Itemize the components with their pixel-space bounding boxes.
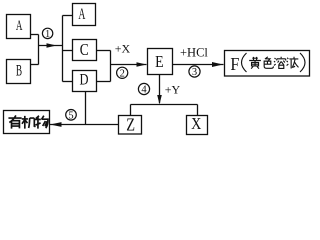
wire arrow5 shaft (Z/D to organic) — [50, 124, 119, 126]
svg-text:2: 2 — [120, 69, 125, 80]
svg-text:F: F — [230, 54, 239, 74]
wire T line above Z and X — [131, 104, 198, 106]
svg-text:3: 3 — [192, 67, 197, 78]
wire merge vertical A+B — [38, 35, 40, 65]
wire stub to A2 — [63, 15, 73, 17]
wire A1 right stub — [31, 34, 39, 36]
char 有 (organic box) — [8, 115, 21, 128]
char 机 (organic box) — [22, 116, 36, 129]
char 物 (organic box) — [35, 116, 48, 129]
wire B right stub — [31, 64, 39, 66]
svg-text:A: A — [16, 18, 23, 34]
char 黄 (F box) — [249, 57, 261, 69]
box C — [73, 40, 97, 61]
wire arrow2 shaft (+X into E) — [111, 64, 147, 66]
paren right of F note — [300, 53, 305, 72]
wire down into Z — [130, 105, 132, 116]
svg-text:+X: +X — [115, 42, 131, 56]
svg-text:E: E — [155, 52, 164, 71]
box X — [187, 116, 208, 135]
svg-text:B: B — [16, 62, 22, 79]
paren left of F note — [242, 53, 247, 72]
box F — [225, 51, 310, 77]
svg-text:A: A — [78, 6, 85, 23]
circled 5 — [66, 110, 77, 122]
arrowhead 2 (into E) — [137, 62, 147, 67]
char 液 (F box) — [287, 57, 299, 69]
wire stub to C — [63, 50, 73, 52]
circled 2 — [117, 67, 128, 79]
wire arrow3 shaft (E to F, +HCl) — [173, 64, 224, 66]
wire arrow1 shaft — [39, 45, 63, 47]
arrowhead 4 (down onto T line) — [157, 95, 162, 105]
arrowhead 5 (into organic box) — [50, 122, 62, 127]
circled 3 — [189, 66, 200, 78]
circled 4 — [138, 83, 149, 95]
circled 1 — [42, 28, 52, 40]
wire CD vertical — [110, 51, 112, 82]
char 色 (F box) — [264, 57, 273, 68]
svg-text:C: C — [80, 40, 89, 59]
svg-text:5: 5 — [68, 111, 73, 122]
arrowhead 3 (into F) — [212, 62, 223, 67]
box E — [148, 49, 173, 75]
svg-text:+Y: +Y — [165, 83, 181, 97]
box A2 — [73, 4, 96, 26]
svg-text:1: 1 — [45, 29, 50, 40]
box Z — [119, 116, 142, 135]
arrowhead 1 (into bracket) — [47, 43, 57, 48]
wire E bottom down (+Y) — [159, 75, 161, 103]
wire bracket vertical A2/C/D — [62, 16, 64, 82]
svg-text:Z: Z — [126, 115, 135, 135]
wire C right stub — [97, 50, 111, 52]
wire stub to D — [63, 81, 73, 83]
CJK strokes group — [8, 57, 298, 129]
box A1 — [7, 15, 31, 39]
svg-text:D: D — [80, 72, 89, 89]
box organic (有机物) — [4, 111, 50, 134]
svg-text:4: 4 — [141, 85, 147, 96]
char 溶 (F box) — [274, 57, 286, 69]
wire D bottom down to organic line — [85, 92, 87, 125]
wire D right stub — [97, 81, 111, 83]
box D — [73, 71, 97, 92]
svg-text:+HCl: +HCl — [180, 46, 208, 60]
box B — [7, 60, 31, 84]
svg-text:X: X — [191, 114, 201, 133]
wire down into X — [197, 105, 199, 116]
